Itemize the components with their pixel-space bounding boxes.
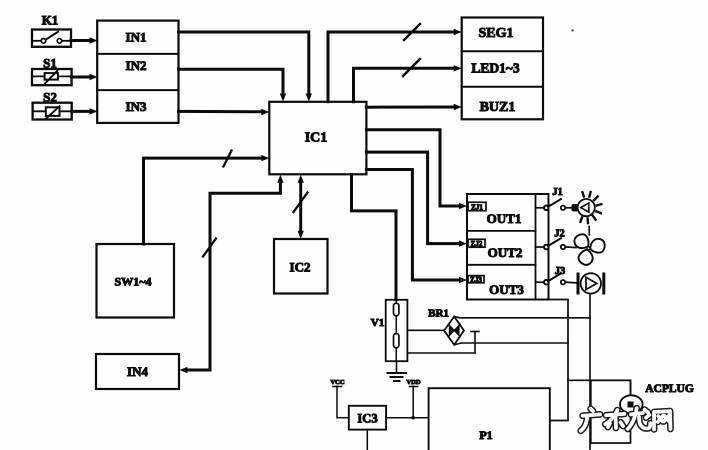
- lamp load at J1: [572, 192, 602, 223]
- bridge rectifier BR1: [444, 317, 464, 345]
- wire IC1 bottom to IN4: [180, 175, 284, 373]
- block IN4: [96, 354, 179, 389]
- svg-text:LED1~3: LED1~3: [471, 61, 520, 76]
- component V1: [386, 300, 408, 361]
- wire IC1 to BUZ1: [366, 104, 461, 110]
- svg-text:V1: V1: [371, 317, 384, 329]
- svg-text:BR1: BR1: [428, 308, 449, 320]
- switch J3: [536, 273, 577, 284]
- wire IC1 to OUT2: [366, 152, 467, 247]
- power symbol VDD: [406, 379, 420, 420]
- wire K1 to IN1: [71, 37, 98, 43]
- wire VCC to IC3: [337, 417, 349, 419]
- svg-text:VDD: VDD: [406, 379, 420, 386]
- svg-text:IC3: IC3: [357, 412, 377, 426]
- wire IC1 to IC2 (bidirectional): [294, 175, 308, 239]
- svg-text:IN3: IN3: [126, 99, 147, 114]
- sensor S2: [33, 103, 72, 120]
- svg-text:ZJ2: ZJ2: [471, 240, 483, 248]
- wire IC1 to OUT3: [366, 170, 467, 284]
- ACPLUG plug: [620, 395, 643, 413]
- wire IN2 to IC1 top: [179, 69, 287, 101]
- svg-text:BUZ1: BUZ1: [480, 100, 516, 115]
- relay ZJ2: [468, 239, 485, 248]
- wire S1 to IN2: [72, 74, 98, 80]
- power symbol VCC: [330, 379, 344, 418]
- block SEG1/LED1-3/BUZ1: [462, 18, 543, 120]
- pump load at J3: [578, 273, 604, 293]
- IC U1: IC1: [269, 102, 366, 175]
- wire pump down to AC: [589, 294, 591, 450]
- wire IC1 to OUT1: [366, 130, 467, 209]
- fan load at J2: [573, 227, 606, 268]
- wire V1 to BR1: [407, 329, 443, 331]
- wire BR1 top to AC line: [454, 317, 590, 318]
- ACPLUG box: [591, 380, 631, 443]
- wire IC1 bottom to V1: [352, 175, 397, 300]
- svg-text:J1: J1: [552, 187, 563, 198]
- svg-text:SEG1: SEG1: [478, 26, 513, 41]
- wire IN3 to IC1 left: [179, 109, 270, 115]
- sensor S1: [32, 69, 72, 85]
- svg-text:IN2: IN2: [126, 58, 147, 73]
- wire IC1 to LED1-3: [354, 59, 462, 102]
- wire IC3 bottom: [366, 430, 368, 450]
- svg-text:VCC: VCC: [330, 379, 344, 386]
- block SW1~4: [97, 244, 175, 318]
- svg-text:K1: K1: [42, 13, 59, 28]
- svg-text:SW1~4: SW1~4: [115, 275, 152, 289]
- switch J1: [536, 199, 572, 210]
- block IN1/IN2/IN3: [97, 21, 178, 123]
- svg-text:ZJ3: ZJ3: [470, 276, 482, 284]
- wire V1 bottom tap: [407, 332, 479, 354]
- svg-text:J2: J2: [554, 229, 565, 240]
- watermark 广东龙网 (drawn as outlined strokes): [581, 408, 671, 431]
- wire SW1-4 bus to IC1 left: [144, 151, 270, 245]
- ground below V1: [388, 361, 407, 381]
- wire IC3 to P1: [386, 417, 429, 419]
- relay ZJ1: [468, 202, 486, 211]
- IC U2: IC2: [274, 239, 328, 294]
- wire BR1 bottom to P1 line: [454, 343, 568, 345]
- block P1: [429, 388, 550, 450]
- wire IC1 to SEG1: [328, 24, 462, 102]
- svg-text:IN1: IN1: [126, 30, 147, 45]
- svg-text:IC2: IC2: [290, 260, 311, 275]
- wire IN1 to IC1 top: [179, 32, 313, 102]
- switch K1: [32, 30, 71, 47]
- IC U3: IC3: [349, 406, 386, 430]
- wire S2 to IN3: [72, 108, 98, 114]
- wire branch to ACPLUG: [568, 380, 631, 396]
- svg-text:ZJ1: ZJ1: [471, 203, 483, 211]
- relay ZJ3: [468, 276, 484, 284]
- svg-text:OUT3: OUT3: [489, 282, 524, 297]
- svg-text:OUT2: OUT2: [488, 245, 523, 260]
- svg-text:IC1: IC1: [305, 131, 328, 146]
- svg-text:ACPLUG: ACPLUG: [645, 383, 694, 395]
- block OUT1/OUT2/OUT3: [467, 194, 549, 300]
- switch J2: [536, 238, 577, 249]
- svg-text:OUT1: OUT1: [487, 211, 522, 226]
- svg-text:IN4: IN4: [127, 364, 148, 379]
- wire OUT block to P1: [549, 300, 569, 421]
- speck artifact: [571, 29, 573, 31]
- svg-text:P1: P1: [479, 428, 492, 442]
